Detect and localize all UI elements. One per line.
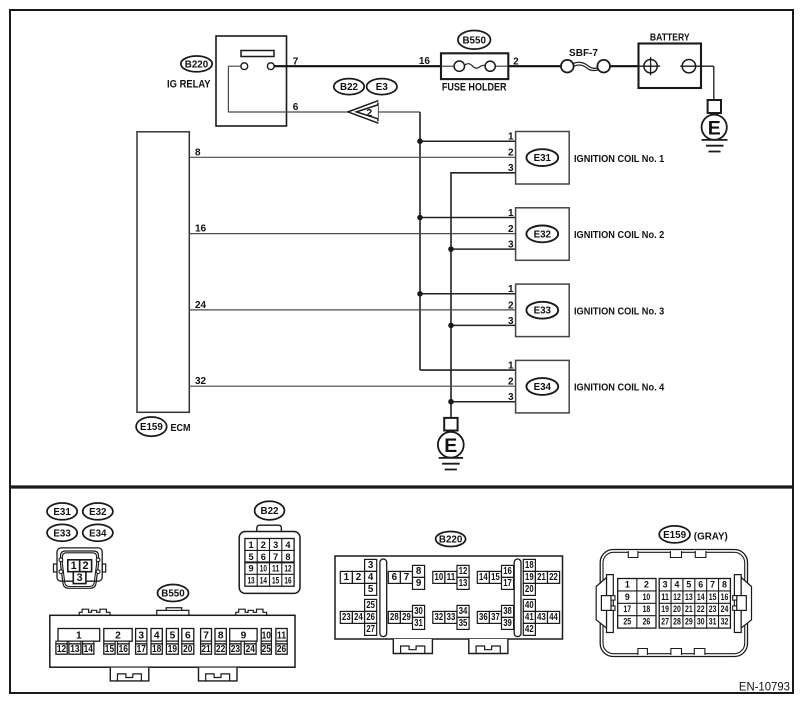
svg-text:13: 13: [70, 644, 80, 655]
svg-text:3: 3: [663, 579, 668, 589]
svg-text:E3: E3: [376, 82, 389, 93]
svg-text:8: 8: [285, 552, 290, 562]
svg-text:29: 29: [685, 617, 693, 627]
svg-text:IGNITION COIL No. 4: IGNITION COIL No. 4: [574, 382, 664, 394]
svg-text:19: 19: [525, 572, 534, 583]
svg-text:24: 24: [354, 612, 363, 623]
svg-text:4: 4: [154, 630, 160, 641]
svg-text:30: 30: [697, 617, 705, 627]
svg-text:12: 12: [673, 592, 681, 602]
svg-text:B550: B550: [462, 35, 486, 46]
svg-text:(GRAY): (GRAY): [694, 531, 728, 543]
svg-text:27: 27: [661, 617, 669, 627]
svg-text:1: 1: [344, 572, 350, 583]
svg-text:6: 6: [392, 572, 398, 583]
svg-text:10: 10: [260, 564, 267, 574]
svg-text:11: 11: [272, 564, 279, 574]
svg-text:15: 15: [272, 576, 279, 586]
svg-text:13: 13: [247, 576, 254, 586]
svg-text:9: 9: [416, 578, 422, 589]
svg-text:15: 15: [491, 572, 500, 583]
svg-text:IG RELAY: IG RELAY: [167, 78, 211, 90]
svg-text:6: 6: [261, 552, 266, 562]
svg-text:2: 2: [644, 579, 649, 589]
svg-text:26: 26: [643, 617, 651, 627]
svg-text:18: 18: [643, 604, 651, 614]
svg-text:28: 28: [673, 617, 681, 627]
svg-text:4: 4: [285, 540, 291, 550]
svg-text:19: 19: [168, 644, 178, 655]
svg-text:40: 40: [525, 600, 534, 611]
svg-text:2: 2: [261, 540, 266, 550]
svg-text:21: 21: [537, 572, 546, 583]
svg-text:19: 19: [661, 604, 669, 614]
svg-text:12: 12: [284, 564, 291, 574]
svg-text:5: 5: [686, 579, 691, 589]
svg-text:E31: E31: [534, 153, 552, 164]
svg-text:31: 31: [709, 617, 717, 627]
svg-text:2: 2: [115, 630, 121, 641]
svg-text:3: 3: [508, 316, 514, 327]
svg-text:32: 32: [721, 617, 729, 627]
svg-text:36: 36: [479, 612, 488, 623]
svg-text:3: 3: [508, 392, 514, 403]
svg-text:6: 6: [293, 102, 299, 113]
svg-text:12: 12: [459, 566, 468, 577]
svg-text:1: 1: [76, 630, 82, 641]
svg-text:2: 2: [508, 300, 514, 311]
svg-text:3: 3: [273, 540, 278, 550]
svg-text:14: 14: [84, 644, 94, 655]
svg-text:IGNITION COIL No. 1: IGNITION COIL No. 1: [574, 153, 664, 165]
svg-text:8: 8: [416, 566, 422, 577]
svg-text:3: 3: [77, 572, 83, 584]
svg-text:2: 2: [508, 224, 514, 235]
svg-text:13: 13: [459, 578, 468, 589]
svg-text:21: 21: [201, 644, 211, 655]
svg-text:14: 14: [260, 576, 268, 586]
svg-text:35: 35: [459, 618, 468, 629]
svg-text:B220: B220: [439, 535, 463, 546]
svg-text:FUSE HOLDER: FUSE HOLDER: [442, 81, 507, 93]
svg-text:21: 21: [685, 604, 693, 614]
svg-text:11: 11: [447, 572, 456, 583]
svg-text:34: 34: [459, 606, 468, 617]
svg-text:2: 2: [356, 572, 362, 583]
svg-text:B22: B22: [340, 82, 359, 93]
svg-text:E: E: [444, 435, 457, 457]
svg-text:E33: E33: [534, 306, 552, 317]
svg-text:18: 18: [152, 644, 162, 655]
svg-text:17: 17: [623, 604, 631, 614]
svg-text:24: 24: [195, 300, 207, 311]
svg-text:26: 26: [277, 644, 287, 655]
svg-text:ECM: ECM: [171, 422, 191, 434]
svg-text:8: 8: [195, 147, 201, 158]
svg-text:10: 10: [262, 630, 272, 641]
svg-text:22: 22: [549, 572, 558, 583]
svg-text:42: 42: [525, 624, 534, 635]
svg-text:16: 16: [195, 224, 207, 235]
svg-text:8: 8: [218, 630, 224, 641]
svg-text:14: 14: [697, 592, 705, 602]
svg-text:33: 33: [447, 612, 456, 623]
svg-text:IGNITION COIL No. 2: IGNITION COIL No. 2: [574, 229, 664, 241]
svg-text:39: 39: [503, 618, 512, 629]
svg-text:24: 24: [246, 644, 256, 655]
svg-text:11: 11: [661, 592, 669, 602]
svg-text:5: 5: [368, 584, 374, 595]
svg-text:3: 3: [508, 240, 514, 251]
svg-text:E159: E159: [663, 530, 686, 541]
svg-text:5: 5: [170, 630, 176, 641]
svg-text:B220: B220: [185, 59, 209, 70]
svg-text:3: 3: [508, 163, 514, 174]
svg-text:27: 27: [366, 624, 375, 635]
svg-text:22: 22: [697, 604, 705, 614]
svg-text:22: 22: [216, 644, 226, 655]
svg-text:EN-10793: EN-10793: [739, 682, 790, 694]
svg-text:E32: E32: [534, 229, 552, 240]
svg-text:IGNITION COIL No. 3: IGNITION COIL No. 3: [574, 305, 664, 317]
svg-text:7: 7: [710, 579, 715, 589]
svg-text:10: 10: [435, 572, 444, 583]
svg-text:B22: B22: [261, 506, 280, 517]
svg-text:9: 9: [625, 592, 630, 602]
svg-text:16: 16: [503, 566, 512, 577]
svg-text:18: 18: [525, 560, 534, 571]
svg-text:2: 2: [508, 148, 514, 159]
svg-text:16: 16: [119, 644, 129, 655]
svg-text:E: E: [708, 117, 721, 139]
svg-text:1: 1: [508, 132, 514, 143]
svg-text:10: 10: [643, 592, 651, 602]
svg-text:7: 7: [404, 572, 410, 583]
svg-text:11: 11: [277, 630, 287, 641]
svg-text:29: 29: [402, 612, 411, 623]
svg-text:16: 16: [419, 56, 431, 67]
svg-text:41: 41: [525, 612, 534, 623]
svg-text:2: 2: [508, 377, 514, 388]
svg-text:6: 6: [185, 630, 191, 641]
svg-text:17: 17: [137, 644, 147, 655]
svg-text:E34: E34: [89, 528, 107, 539]
svg-text:38: 38: [503, 606, 512, 617]
svg-text:6: 6: [698, 579, 703, 589]
svg-text:E32: E32: [89, 507, 107, 518]
svg-text:13: 13: [685, 592, 693, 602]
svg-text:15: 15: [105, 644, 115, 655]
svg-text:9: 9: [248, 564, 253, 574]
svg-text:24: 24: [721, 604, 729, 614]
svg-text:32: 32: [195, 376, 207, 387]
svg-text:31: 31: [414, 618, 423, 629]
svg-text:25: 25: [262, 644, 272, 655]
svg-text:B550: B550: [161, 589, 185, 600]
svg-text:8: 8: [722, 579, 727, 589]
svg-text:20: 20: [525, 584, 534, 595]
svg-text:1: 1: [71, 560, 77, 572]
svg-text:3: 3: [368, 560, 374, 571]
svg-text:1: 1: [508, 284, 514, 295]
svg-text:12: 12: [57, 644, 67, 655]
svg-text:25: 25: [623, 617, 631, 627]
svg-text:2: 2: [83, 560, 89, 572]
svg-text:7: 7: [293, 57, 299, 68]
svg-text:1: 1: [248, 540, 253, 550]
svg-text:16: 16: [721, 592, 729, 602]
svg-text:BATTERY: BATTERY: [650, 31, 690, 43]
svg-text:26: 26: [366, 612, 375, 623]
svg-text:E33: E33: [53, 528, 71, 539]
svg-text:4: 4: [675, 579, 680, 589]
svg-text:4: 4: [368, 572, 374, 583]
svg-text:1: 1: [625, 579, 630, 589]
svg-text:16: 16: [284, 576, 291, 586]
svg-text:23: 23: [231, 644, 241, 655]
svg-text:43: 43: [537, 612, 546, 623]
svg-text:E31: E31: [53, 507, 71, 518]
svg-text:28: 28: [390, 612, 399, 623]
svg-text:32: 32: [435, 612, 444, 623]
svg-text:30: 30: [414, 606, 423, 617]
svg-text:23: 23: [342, 612, 351, 623]
svg-text:44: 44: [549, 612, 558, 623]
svg-text:E34: E34: [534, 382, 552, 393]
svg-text:1: 1: [508, 361, 514, 372]
svg-text:7: 7: [273, 552, 278, 562]
svg-text:1: 1: [508, 208, 514, 219]
svg-text:25: 25: [366, 600, 375, 611]
svg-text:15: 15: [709, 592, 717, 602]
svg-text:5: 5: [248, 552, 253, 562]
svg-text:9: 9: [241, 630, 247, 641]
svg-text:17: 17: [503, 578, 512, 589]
svg-text:23: 23: [709, 604, 717, 614]
svg-text:E159: E159: [140, 422, 163, 433]
svg-text:SBF-7: SBF-7: [569, 48, 598, 59]
svg-text:20: 20: [183, 644, 193, 655]
svg-text:2: 2: [366, 107, 372, 119]
svg-text:3: 3: [138, 630, 144, 641]
svg-text:7: 7: [203, 630, 209, 641]
svg-text:14: 14: [479, 572, 488, 583]
svg-text:20: 20: [673, 604, 681, 614]
svg-text:37: 37: [491, 612, 500, 623]
